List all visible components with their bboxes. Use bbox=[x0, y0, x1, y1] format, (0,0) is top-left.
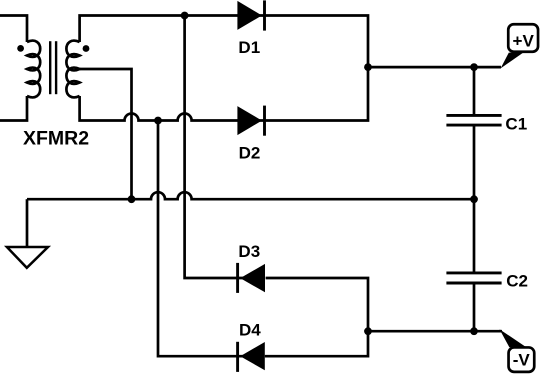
svg-text:D3: D3 bbox=[238, 242, 260, 261]
node: junction dot -V corner bbox=[364, 327, 372, 335]
wire: +V rail bbox=[368, 66, 501, 69]
wire: secondary top to D1 row bbox=[80, 16, 368, 68]
node: junction dot top row bbox=[181, 12, 189, 20]
diode D3 bbox=[236, 263, 239, 293]
svg-text:-V: -V bbox=[513, 351, 531, 370]
transformer XFMR2 primary polarity dot bbox=[17, 45, 24, 52]
flag -V box bbox=[509, 347, 535, 371]
svg-text:D4: D4 bbox=[239, 321, 261, 340]
svg-text:XFMR2: XFMR2 bbox=[23, 128, 89, 150]
capacitor C1 bbox=[473, 67, 476, 114]
diode D1 bbox=[237, 1, 262, 30]
svg-text:D1: D1 bbox=[238, 38, 260, 57]
transformer XFMR2 secondary winding bbox=[66, 41, 79, 98]
node: junction dot C1 top bbox=[470, 63, 478, 71]
wire: vertical to D4 row bbox=[158, 121, 243, 357]
flag +V box bbox=[508, 24, 538, 52]
node: junction dot tap to mid rail bbox=[128, 195, 136, 203]
transformer XFMR2 secondary polarity dot bbox=[83, 45, 90, 52]
svg-text:+V: +V bbox=[513, 32, 535, 51]
wire: vertical to D3 row bbox=[185, 16, 243, 279]
wire: primary top lead bbox=[0, 16, 27, 43]
wire: secondary center tap down bbox=[80, 69, 132, 199]
flag +V tail bbox=[501, 53, 524, 69]
ground bbox=[7, 247, 48, 268]
wire: ground stem bbox=[26, 199, 29, 247]
svg-text:D2: D2 bbox=[239, 144, 261, 163]
svg-text:C2: C2 bbox=[506, 271, 528, 290]
wire: secondary bottom / D2 row (with hops at 131.5 and 184.6) bbox=[80, 67, 368, 120]
node: junction dot D2 row bbox=[154, 117, 162, 125]
node: junction dot +V corner bbox=[364, 63, 372, 71]
svg-text:C1: C1 bbox=[505, 114, 527, 133]
wire: mid (ground) rail with hops at 158 and 184.6 bbox=[27, 192, 474, 199]
wire: -V rail bbox=[368, 330, 502, 333]
node: junction dot C2 bottom bbox=[470, 327, 478, 335]
wire: D4 row to right vertical bbox=[265, 331, 368, 356]
capacitor C2 bbox=[473, 199, 476, 272]
diode D2 bbox=[237, 106, 262, 135]
wire: D3 row to right vertical bbox=[266, 278, 368, 331]
transformer XFMR2 core line 2 bbox=[55, 41, 57, 94]
wire: primary bottom lead bbox=[0, 96, 27, 121]
transformer XFMR2 core line 1 bbox=[49, 41, 51, 94]
transformer XFMR2 primary winding bbox=[27, 41, 40, 98]
diode D4 bbox=[236, 342, 239, 372]
flag -V tail bbox=[500, 329, 527, 347]
node: junction dot mid rail right bbox=[470, 195, 478, 203]
